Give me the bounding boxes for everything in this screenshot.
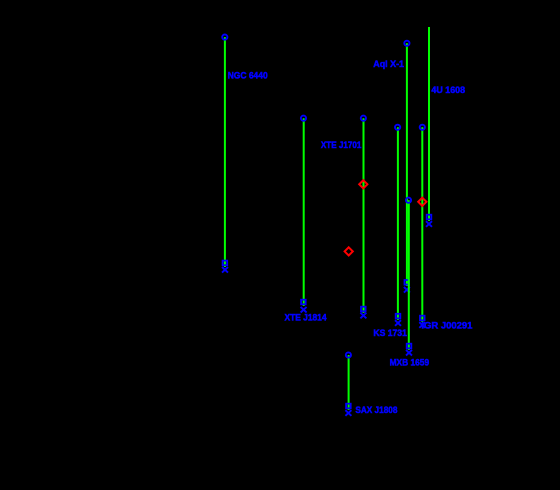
node IGR J00291 diamond [418, 198, 426, 206]
node MXB 1659 top circle [406, 198, 411, 203]
node Aql X-1 top circle [404, 41, 409, 46]
node NGC 6440 X [222, 267, 228, 273]
node isolated red diamond [345, 247, 353, 255]
node 4U 1608 X [426, 221, 432, 227]
svg-text:MXB 1659: MXB 1659 [390, 358, 430, 369]
node XTE J1814 X [301, 307, 307, 313]
node SAX J1808 X [345, 410, 351, 416]
wire SAX J1808 line [348, 355, 350, 410]
node KS 1731 top circle [395, 125, 400, 130]
node KS 1731 X [395, 320, 401, 326]
wire IGR J00291 line [421, 127, 423, 322]
wire Aql X-1 line [406, 43, 408, 286]
node XTE J1814 top circle [301, 116, 306, 121]
wire 4U 1608 line [428, 27, 430, 221]
svg-text:SAX J1808: SAX J1808 [355, 405, 397, 416]
node MXB 1659 X [406, 350, 412, 356]
node IGR J00291 bottom square [420, 316, 425, 321]
wire NGC 6440 line [224, 37, 226, 267]
node Aql X-1 X [404, 287, 410, 293]
node SAX J1808 bottom square [346, 404, 351, 409]
node XTE J1701 bottom square [361, 307, 366, 312]
node XTE J1814 bottom square [301, 300, 306, 305]
svg-text:NGC 6440: NGC 6440 [228, 70, 268, 81]
node Aql X-1 bottom square [405, 280, 410, 285]
node NGC 6440 top circle [222, 35, 227, 40]
svg-text:XTE J1701: XTE J1701 [321, 140, 362, 151]
wire XTE J1814 line [303, 118, 305, 306]
node KS 1731 bottom square [396, 314, 401, 319]
node XTE J1701 diamond [359, 180, 367, 188]
wire XTE J1701 line [363, 118, 365, 313]
node XTE J1701 X [360, 313, 366, 319]
node IGR J00291 X [419, 322, 425, 328]
svg-text:KS 1731: KS 1731 [373, 328, 407, 339]
svg-text:Aql X-1: Aql X-1 [373, 59, 404, 70]
node 4U 1608 bottom square [427, 215, 432, 220]
wire MXB 1659 line [408, 200, 410, 350]
node IGR J00291 top circle [420, 125, 425, 130]
node XTE J1701 top circle [361, 116, 366, 121]
svg-text:IGR J00291: IGR J00291 [421, 320, 473, 331]
svg-text:4U 1608: 4U 1608 [431, 85, 465, 96]
svg-text:XTE J1814: XTE J1814 [285, 313, 328, 324]
wire KS 1731 line [397, 127, 399, 320]
node NGC 6440 bottom square [223, 261, 228, 266]
node MXB 1659 bottom square [407, 344, 412, 349]
node SAX J1808 top circle [346, 352, 351, 357]
